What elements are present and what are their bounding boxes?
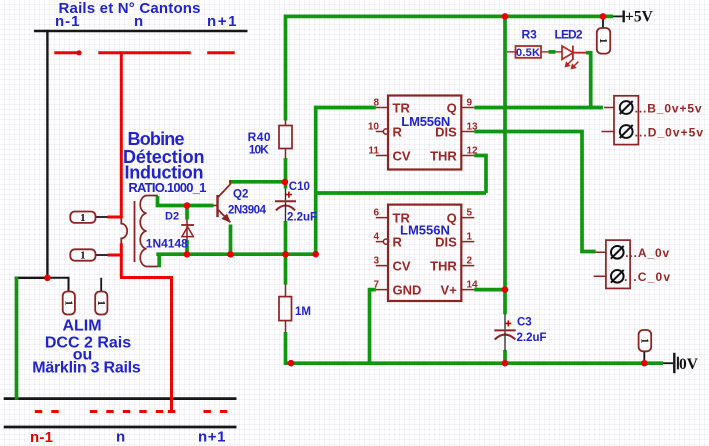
svg-text:1: 1 [597,38,609,44]
svg-text:TR: TR [393,211,411,226]
svg-text:...B_0v+5v: ...B_0v+5v [635,102,702,116]
svg-text:1: 1 [638,338,650,344]
svg-text:LED2: LED2 [555,28,583,42]
svg-text:n: n [134,13,143,30]
svg-text:8: 8 [373,98,379,109]
svg-text:1: 1 [80,250,86,262]
svg-text:R: R [393,235,403,250]
svg-text:C3: C3 [517,317,532,329]
svg-text:RATIO.1000_1: RATIO.1000_1 [128,180,206,195]
svg-text:1: 1 [62,300,74,306]
svg-text:0V: 0V [679,356,699,373]
svg-text:2N3904: 2N3904 [228,205,267,217]
svg-text:Q: Q [447,211,457,226]
svg-text:13: 13 [467,122,479,133]
svg-text:C10: C10 [289,181,310,193]
svg-text:1: 1 [467,232,473,243]
svg-text:1: 1 [95,300,107,306]
svg-text:TR: TR [393,101,411,116]
svg-text:...A_0v: ...A_0v [625,246,669,260]
svg-text:6: 6 [373,208,379,219]
svg-text:Bobine: Bobine [128,129,185,149]
svg-text:R: R [393,125,403,140]
svg-text:Märklin 3 Rails: Märklin 3 Rails [32,360,141,377]
svg-text:7: 7 [373,280,379,291]
svg-text:2: 2 [467,256,473,267]
svg-text:5: 5 [467,208,473,219]
svg-text:GND: GND [393,283,422,298]
svg-text:n+1: n+1 [198,429,226,446]
svg-text:0.5K: 0.5K [516,47,540,59]
svg-text:ALIM: ALIM [62,318,101,335]
svg-text:n+1: n+1 [207,13,237,30]
svg-text:Q2: Q2 [233,189,248,201]
svg-text:2.2uF: 2.2uF [517,332,547,344]
svg-text:THR: THR [430,149,457,164]
svg-text:V+: V+ [441,283,458,298]
svg-text:1: 1 [80,212,86,224]
svg-text:+5V: +5V [625,9,654,26]
svg-text:CV: CV [393,149,411,164]
svg-text:DIS: DIS [435,125,457,140]
svg-text:CV: CV [393,259,411,274]
svg-text:14: 14 [467,280,479,291]
svg-text:12: 12 [467,146,479,157]
svg-text:9: 9 [467,98,473,109]
svg-text:3: 3 [373,256,379,267]
svg-text:2.2uF: 2.2uF [287,212,317,224]
svg-text:n-1: n-1 [55,13,80,30]
svg-text:4: 4 [373,232,379,243]
svg-text:1M: 1M [295,306,311,318]
svg-text:n-1: n-1 [30,429,53,446]
svg-text:10: 10 [368,122,380,133]
svg-text:Q: Q [447,101,457,116]
svg-text:1N4148: 1N4148 [146,237,188,251]
svg-text:n: n [116,429,125,446]
svg-text:...D_0v+5v: ...D_0v+5v [635,126,704,140]
svg-text:R3: R3 [522,28,538,42]
svg-text:DIS: DIS [435,235,457,250]
svg-text:THR: THR [430,259,457,274]
svg-text:10K: 10K [249,143,269,157]
svg-text:...C_0v: ...C_0v [624,270,670,284]
svg-text:Rails et N° Cantons: Rails et N° Cantons [59,0,201,17]
svg-text:D2: D2 [165,211,179,223]
svg-text:11: 11 [368,146,379,157]
